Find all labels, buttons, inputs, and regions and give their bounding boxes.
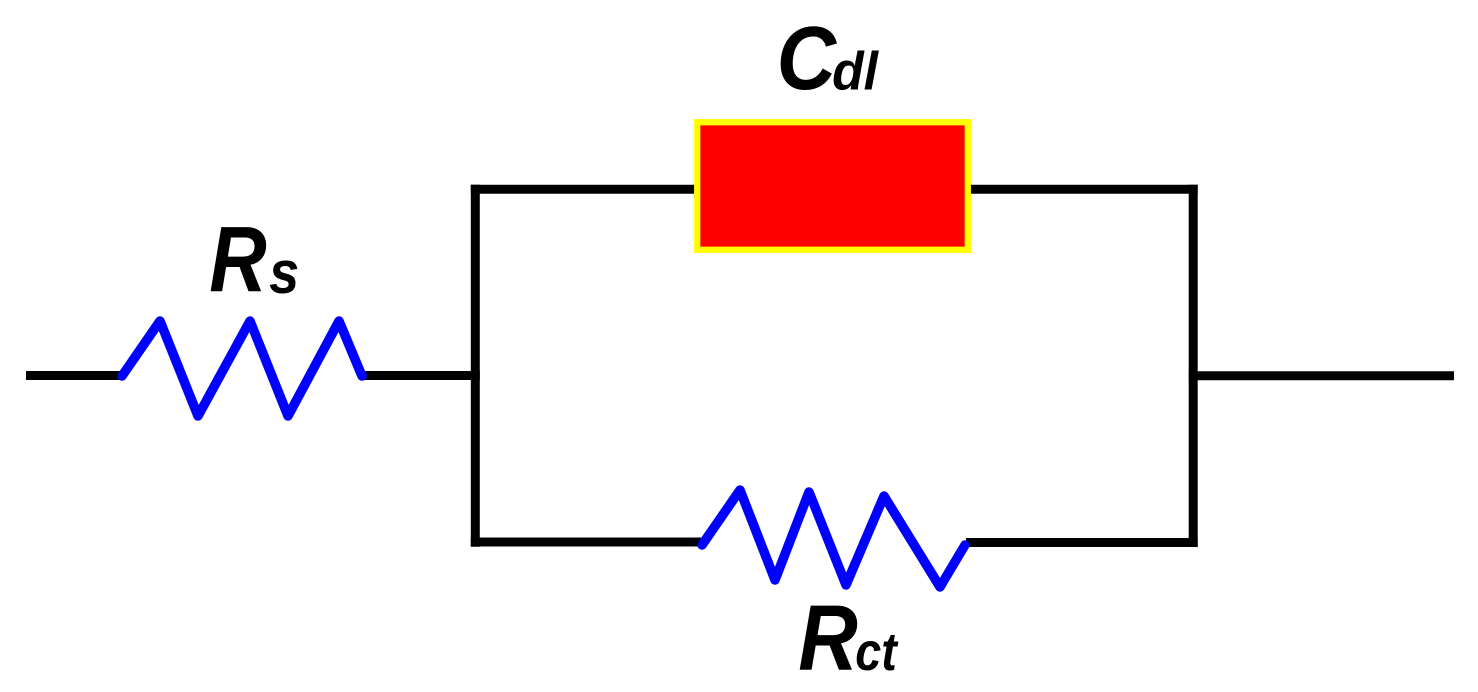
svg-text:dl: dl <box>832 41 879 101</box>
svg-text:ct: ct <box>855 621 899 682</box>
svg-text:R: R <box>209 208 266 311</box>
svg-text:s: s <box>269 239 299 306</box>
svg-text:R: R <box>798 586 858 689</box>
svg-text:C: C <box>777 9 838 109</box>
